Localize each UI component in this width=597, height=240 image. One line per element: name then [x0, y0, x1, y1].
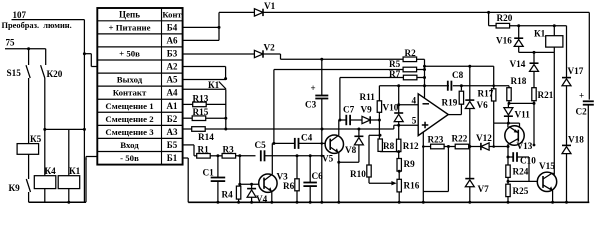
junction V5 collector / R7 / C7 — [338, 119, 341, 122]
svg-text:Б1: Б1 — [167, 153, 178, 163]
svg-text:- 50в: - 50в — [120, 153, 139, 163]
svg-text:V15: V15 — [539, 161, 555, 171]
svg-text:V5: V5 — [322, 154, 334, 164]
wire V13 emitter — [507, 144, 509, 147]
wire V10 to pin5 net — [398, 122, 400, 140]
wire pin4 net — [379, 85, 449, 87]
wire +power rail top — [219, 11, 254, 13]
svg-text:R11: R11 — [360, 92, 376, 102]
wire K5 to K9 — [28, 154, 30, 179]
svg-text:Смещение 1: Смещение 1 — [105, 101, 153, 111]
svg-text:Б2: Б2 — [167, 114, 178, 124]
svg-text:C3: C3 — [305, 100, 317, 110]
junction V16 column — [517, 24, 520, 27]
left ground rail — [29, 201, 86, 203]
wire V3 base — [240, 183, 259, 185]
junction R20 drop — [487, 11, 490, 14]
right rail down to C2 — [588, 12, 590, 99]
wire B3 row stub — [183, 53, 255, 55]
svg-text:К1: К1 — [534, 29, 546, 39]
svg-text:R9: R9 — [404, 159, 416, 169]
svg-text:V3: V3 — [277, 172, 289, 182]
svg-text:К1: К1 — [208, 80, 220, 90]
junction R5/C4/collector — [272, 142, 275, 145]
svg-text:А2: А2 — [167, 62, 178, 72]
wire R10 top to R8 — [369, 134, 380, 136]
junction R6 top — [296, 154, 299, 157]
wire B1 stub to ground — [183, 157, 189, 159]
wire K1 to V15 collector — [553, 52, 555, 174]
svg-text:C4: C4 — [301, 133, 313, 143]
svg-text:Преобраз. люмин.: Преобраз. люмин. — [2, 21, 72, 30]
wire V15 emitter to rail — [552, 190, 554, 202]
svg-text:К20: К20 — [47, 69, 63, 79]
svg-text:V7: V7 — [478, 184, 490, 194]
junction K1 column — [553, 24, 556, 27]
svg-text:К5: К5 — [30, 134, 42, 144]
wire R18/R21 bottom net — [509, 102, 534, 104]
svg-text:Б3: Б3 — [167, 49, 178, 59]
wire C10 down to base — [528, 157, 530, 181]
wire stub to A2 row — [84, 53, 91, 55]
wire V17 branch — [566, 26, 568, 78]
svg-text:А5: А5 — [167, 75, 178, 85]
junction base V3 — [238, 183, 241, 186]
wire K1coil to rail — [68, 189, 70, 203]
wire Vhod B5 stub — [183, 144, 194, 146]
svg-text:V6: V6 — [477, 100, 489, 110]
junction pin4/C8 column — [423, 84, 426, 87]
junction C10 tap — [507, 156, 510, 159]
svg-text:5: 5 — [412, 116, 417, 126]
wire V1 to right rail — [263, 11, 589, 13]
svg-text:К1: К1 — [69, 166, 81, 176]
wire A4 row stub — [183, 88, 226, 90]
junction V13 base net — [507, 122, 510, 125]
svg-text:К4: К4 — [45, 166, 57, 176]
svg-text:75: 75 — [6, 38, 16, 48]
svg-text:R5: R5 — [389, 59, 401, 69]
svg-text:А3: А3 — [167, 127, 178, 137]
junction R19 top — [460, 84, 463, 87]
junction C1 — [216, 154, 219, 157]
wire B4 row stub — [183, 26, 219, 28]
svg-text:R6: R6 — [283, 181, 295, 191]
wire V13 collector — [507, 123, 509, 127]
resistor R14 — [192, 127, 206, 132]
svg-text:R21: R21 — [538, 90, 554, 100]
junction — [27, 47, 30, 50]
svg-text:Выход: Выход — [117, 75, 143, 85]
switch K20 — [45, 49, 47, 65]
svg-text:R20: R20 — [497, 13, 513, 23]
switch S15 — [28, 49, 30, 65]
svg-text:C5: C5 — [255, 140, 267, 150]
junction C6 top — [309, 154, 312, 157]
wire V2 step — [263, 53, 281, 55]
wire C4 net — [272, 142, 294, 144]
svg-text:V12: V12 — [476, 133, 492, 143]
svg-text:Вход: Вход — [120, 140, 139, 150]
svg-text:А1: А1 — [167, 101, 178, 111]
wire A2 row stub to K1 contact — [183, 66, 226, 68]
wire pin5 long net — [226, 128, 394, 130]
wire column x84 down to relay bus — [83, 20, 85, 130]
svg-text:107: 107 — [13, 10, 27, 20]
wire A6 row stub — [183, 39, 219, 41]
wire V15 collector — [553, 173, 555, 175]
svg-text:Смещение 2: Смещение 2 — [105, 114, 154, 124]
svg-text:+ Питание: + Питание — [109, 22, 151, 32]
wire R5 net to R17 column — [425, 65, 494, 67]
wire op-amp output — [448, 114, 461, 116]
svg-text:R14: R14 — [198, 132, 214, 142]
wire 75 horizontal — [5, 48, 46, 50]
svg-text:C8: C8 — [452, 70, 464, 80]
wire R7 column — [339, 78, 341, 121]
wire V3 collector — [271, 143, 273, 174]
svg-text:Контакт: Контакт — [113, 88, 147, 98]
wire V5 collector — [338, 120, 340, 135]
wire R23 bypass loop — [447, 147, 449, 192]
svg-text:S15: S15 — [7, 68, 22, 78]
wire R20 left — [488, 12, 490, 25]
svg-text:V13: V13 — [517, 141, 533, 151]
wire R4 column — [239, 156, 241, 186]
wire S15 to K5 — [28, 78, 30, 144]
svg-text:R10: R10 — [350, 169, 366, 179]
wire — [85, 158, 87, 202]
svg-text:R16: R16 — [404, 180, 420, 190]
svg-text:V1: V1 — [264, 1, 276, 11]
wire K1coil column — [68, 129, 70, 175]
wire R5 left column — [273, 70, 275, 144]
junction R23 right — [447, 145, 450, 148]
wire A5 row stub — [183, 79, 226, 81]
svg-text:R12: R12 — [403, 141, 419, 151]
svg-text:V18: V18 — [568, 134, 584, 144]
wire V3 emitter to rail — [271, 191, 273, 202]
svg-text:V17: V17 — [568, 66, 584, 76]
svg-text:R19: R19 — [442, 98, 458, 108]
wire op-amp lower edge to R23 column — [422, 132, 424, 202]
svg-text:R25: R25 — [513, 186, 529, 196]
wire right column to rail — [83, 129, 85, 202]
svg-text:V11: V11 — [515, 110, 531, 120]
svg-text:V16: V16 — [496, 36, 512, 46]
wire R17 to V13 — [494, 122, 520, 124]
wire C2 to rail — [587, 105, 589, 203]
wire K20 down — [44, 78, 46, 176]
wire from 107 to right column — [29, 19, 84, 21]
svg-text:R8: R8 — [383, 141, 395, 151]
svg-text:А6: А6 — [167, 36, 178, 46]
svg-text:+: + — [579, 91, 584, 101]
wire pin4 stub — [397, 103, 400, 106]
svg-text:R24: R24 — [513, 167, 529, 177]
junction V9/R11/R8 column — [378, 119, 381, 122]
wire R10 bottom arrow to R16 — [368, 177, 370, 183]
wire R17 column to V12 net — [493, 123, 495, 147]
svg-text:V10: V10 — [383, 103, 399, 113]
svg-text:C1: C1 — [203, 168, 215, 178]
junction V13 emitter node — [507, 145, 510, 148]
svg-text:R23: R23 — [428, 134, 444, 144]
wire V15 base — [508, 180, 537, 182]
svg-text:R4: R4 — [222, 190, 234, 200]
svg-text:V9: V9 — [361, 105, 373, 115]
wire contact column down — [225, 89, 227, 129]
wire -50v row to left column — [86, 156, 97, 158]
junction R4 — [238, 154, 241, 157]
svg-text:R18: R18 — [511, 76, 527, 86]
junction V6/V7 column — [468, 145, 471, 148]
svg-text:+ 50в: + 50в — [119, 49, 140, 59]
svg-text:А4: А4 — [167, 88, 178, 98]
wire R21 column lower — [533, 103, 535, 145]
diode V4 — [247, 188, 256, 190]
wire V16/V14/K1 bottom bus — [519, 51, 555, 53]
svg-text:V14: V14 — [510, 59, 526, 69]
wire emitter column to R24 — [507, 147, 509, 166]
svg-text:R22: R22 — [452, 134, 468, 144]
svg-text:V2: V2 — [264, 43, 276, 53]
op-amp U1 — [418, 94, 448, 136]
main ground rail — [188, 201, 589, 203]
junction R24/R25 base node — [507, 177, 509, 184]
svg-text:Б5: Б5 — [167, 140, 178, 150]
svg-text:+: + — [311, 83, 316, 93]
svg-text:V4: V4 — [256, 194, 268, 204]
svg-text:C2: C2 — [576, 107, 588, 117]
connector table XP1 — [97, 8, 182, 165]
wire K4 to rail — [44, 189, 46, 203]
svg-text:К9: К9 — [9, 183, 21, 193]
svg-text:V8: V8 — [345, 145, 357, 155]
wire emitter junction — [337, 161, 340, 164]
svg-text:Смещение 3: Смещение 3 — [105, 127, 154, 137]
wire V5 emitter — [338, 153, 340, 203]
svg-text:4: 4 — [412, 95, 417, 105]
junction C3 top — [320, 58, 323, 61]
svg-text:Конт: Конт — [162, 10, 182, 20]
svg-text:Б4: Б4 — [167, 22, 178, 32]
svg-text:C7: C7 — [343, 105, 355, 115]
wire V11 column top — [507, 103, 509, 107]
svg-text:Цепь: Цепь — [119, 10, 140, 20]
relay bus wire — [45, 128, 85, 130]
